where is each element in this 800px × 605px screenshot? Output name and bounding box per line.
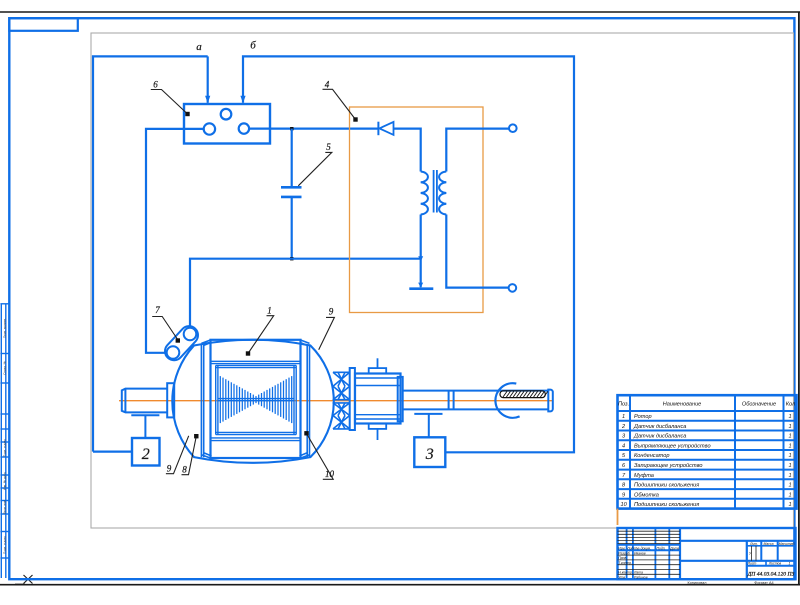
sheet origin X marker [15, 575, 33, 584]
svg-text:10: 10 [620, 502, 627, 508]
svg-text:Пров.: Пров. [618, 556, 627, 560]
parts table header text [618, 401, 796, 407]
svg-text:1: 1 [788, 453, 791, 459]
svg-text:Выпрямляющее устройство: Выпрямляющее устройство [634, 443, 711, 450]
svg-text:а: а [196, 41, 202, 53]
terminal circle top [509, 124, 517, 132]
svg-text:Поз.: Поз. [618, 401, 629, 407]
svg-text:Дата: Дата [669, 546, 679, 550]
svg-text:Разраб.: Разраб. [618, 551, 630, 555]
svg-text:Инв. № дубл.: Инв. № дубл. [3, 472, 7, 491]
parts table grid [618, 395, 797, 508]
sheet border black bottom line [0, 584, 800, 586]
left shaft flange [167, 383, 174, 417]
capacitor 5 bottom lead [291, 198, 293, 259]
svg-text:8: 8 [182, 465, 187, 475]
coupling top pin [369, 358, 387, 373]
ground arrow tip [418, 283, 423, 288]
svg-text:Датчик дисбаланса: Датчик дисбаланса [633, 424, 686, 430]
svg-text:6: 6 [153, 80, 158, 90]
svg-text:Лист: Лист [626, 546, 636, 550]
parts table rows text [620, 414, 791, 508]
svg-text:б: б [250, 40, 256, 52]
arrowhead net b [240, 96, 245, 104]
label 9b leader [166, 436, 189, 474]
wire diode to transformer primary [394, 129, 421, 172]
svg-text:1: 1 [622, 414, 625, 420]
svg-text:1: 1 [267, 306, 272, 316]
svg-text:1: 1 [788, 434, 791, 440]
keyway hatch [503, 391, 548, 397]
coupling hub inner lines [355, 378, 401, 419]
svg-text:Перв. примен.: Перв. примен. [3, 318, 7, 338]
svg-text:Конденсатор: Конденсатор [634, 453, 670, 459]
wire net b : top wire to right loop [243, 56, 574, 452]
rotor stack inner edge lines [211, 361, 301, 440]
transformer T secondary winding [439, 172, 446, 215]
box 3 body [414, 437, 445, 467]
svg-text:Запирающее устройство: Запирающее устройство [634, 462, 703, 469]
label 7 leader [152, 317, 178, 341]
svg-text:Формат A4: Формат A4 [754, 581, 773, 585]
svg-text:1: 1 [788, 473, 791, 479]
svg-text:Листов: Листов [768, 562, 782, 566]
connector block 6 right contact [239, 123, 249, 133]
svg-text:Муфта: Муфта [634, 473, 654, 479]
svg-text:Масштаб: Масштаб [779, 542, 795, 546]
junction dot capacitor bottom [290, 257, 293, 260]
svg-text:9: 9 [167, 464, 172, 474]
capacitor 5 top plate [281, 186, 302, 189]
svg-text:Подп. и дата: Подп. и дата [3, 439, 7, 457]
title block small texts [618, 542, 794, 579]
svg-text:1: 1 [788, 424, 791, 430]
svg-text:Н.контр.: Н.контр. [618, 571, 632, 575]
svg-text:7: 7 [155, 305, 160, 315]
rotor left end plate [201, 340, 211, 458]
wire from right contact to rectifier [249, 128, 377, 130]
wire from left contact to left branch [146, 129, 204, 353]
diode VD cathode bar [377, 122, 379, 136]
svg-text:Кол: Кол [786, 401, 796, 407]
svg-text:1: 1 [788, 414, 791, 420]
svg-text:3: 3 [425, 446, 434, 463]
connector block 6 body [184, 104, 270, 144]
svg-text:Справ. №: Справ. № [3, 360, 7, 374]
roller sensor 7 upper roller [184, 328, 197, 341]
below-frame captions [687, 581, 773, 585]
label 6 leader [151, 90, 187, 114]
ground symbol [409, 287, 433, 290]
svg-text:Обозначение: Обозначение [742, 401, 776, 407]
svg-text:10: 10 [325, 469, 335, 479]
rotor winding window borders [216, 365, 297, 434]
svg-text:Рабинов: Рабинов [634, 575, 648, 579]
coupling flange bar [350, 368, 355, 430]
label 10 leader [307, 434, 334, 480]
keyway slot black outline [500, 391, 545, 398]
rotor right end plate [300, 340, 310, 458]
retaining ring C-clip [495, 383, 519, 418]
wire primary bottom to ground [420, 215, 422, 288]
svg-text:Наименование: Наименование [663, 401, 702, 407]
wire to box 2 [93, 451, 132, 453]
flexible coupling lattice [333, 372, 350, 429]
capacitor 5 top lead [291, 129, 293, 187]
transformer T core [434, 170, 437, 213]
title block main blue dividers [618, 528, 796, 579]
svg-text:Иванов: Иванов [634, 551, 646, 555]
sheet border black top line [0, 11, 800, 13]
svg-text:Лит.: Лит. [749, 542, 758, 546]
svg-text:ДП 44.03.04.120 ПЗ: ДП 44.03.04.120 ПЗ [747, 572, 795, 578]
label 8 leader [182, 436, 197, 475]
svg-text:№ докум.: № докум. [636, 546, 651, 550]
orange boundary of rectifier unit 4 [350, 107, 484, 313]
svg-text:Подп. и дата: Подп. и дата [3, 536, 7, 554]
svg-text:Т.контр.: Т.контр. [618, 561, 632, 565]
svg-text:4: 4 [622, 444, 625, 450]
label 5 leader [298, 152, 332, 185]
svg-text:1: 1 [788, 492, 791, 498]
svg-text:Лист: Лист [747, 562, 757, 566]
svg-text:Ротор: Ротор [634, 414, 652, 420]
svg-text:1: 1 [788, 463, 791, 469]
wire net a : left loop top [93, 56, 208, 451]
transformer T primary winding [421, 172, 428, 215]
box 2 probe bar [131, 415, 159, 438]
view boundary gray rectangle [91, 33, 794, 528]
svg-text:2: 2 [142, 446, 150, 463]
left shaft outline [122, 389, 168, 413]
left margin column cells [0, 304, 9, 578]
svg-text:Изм.: Изм. [618, 546, 625, 550]
svg-text:1: 1 [788, 444, 791, 450]
svg-text:Масса: Масса [763, 542, 773, 546]
capacitor 5 bottom plate [281, 196, 302, 199]
roller sensor 7 lower roller [167, 346, 180, 359]
svg-text:Взам. инв.: Взам. инв. [3, 500, 7, 515]
svg-text:1: 1 [789, 562, 791, 566]
wire net a drop to connector [207, 56, 209, 102]
svg-text:Подшипники скольжения: Подшипники скольжения [634, 502, 699, 508]
coupling bottom pin [369, 424, 387, 441]
junction dot capacitor top [290, 127, 293, 130]
svg-text:1: 1 [788, 483, 791, 489]
box 3 probe bar [414, 414, 442, 437]
connector block 6 top contact [221, 109, 232, 120]
label 4 leader [323, 89, 356, 119]
title block outer box [618, 528, 796, 579]
orange stub below table [617, 509, 619, 525]
svg-text:1: 1 [788, 502, 791, 508]
wire secondary top to terminal [446, 129, 509, 172]
rotor winding bowtie hatch [220, 376, 291, 423]
box 2 body [132, 438, 160, 466]
motor housing ellipse [172, 340, 334, 463]
svg-text:9: 9 [622, 492, 625, 498]
svg-text:Подп.: Подп. [657, 546, 666, 550]
right shaft outline [403, 391, 549, 410]
svg-text:Копировал: Копировал [687, 581, 706, 585]
svg-text:4: 4 [325, 80, 330, 90]
terminal circle bottom [509, 284, 517, 292]
roller sensor 7 capsule [161, 322, 201, 364]
svg-text:9: 9 [329, 307, 334, 317]
svg-text:Подшипники скольжения: Подшипники скольжения [634, 483, 699, 489]
svg-text:Утв.: Утв. [618, 575, 626, 579]
motor axis centerline orange [119, 400, 553, 402]
sheet border black right line [798, 12, 800, 585]
coupling right cap [398, 377, 403, 421]
title block thin row lines [618, 531, 757, 574]
svg-text:5: 5 [326, 142, 331, 152]
label 9 leader [319, 317, 335, 349]
arrowhead net a [205, 96, 210, 104]
wire secondary bottom to terminal [446, 215, 508, 288]
right shaft end cap [548, 390, 553, 412]
connector block 6 left contact [204, 123, 215, 134]
diode VD triangle [379, 122, 393, 135]
frame top-left format tab [9, 18, 78, 31]
wire lower horizontal net [190, 259, 421, 328]
label 1 leader [248, 316, 274, 354]
coupling hub cylinder [355, 374, 401, 424]
rotor stack outer rectangle [211, 340, 301, 458]
svg-text:Обмотка: Обмотка [634, 492, 659, 498]
svg-text:Лата: Лата [633, 571, 643, 575]
svg-text:Датчик дисбаланса: Датчик дисбаланса [633, 434, 686, 440]
junction arrow on lower net [418, 256, 423, 261]
